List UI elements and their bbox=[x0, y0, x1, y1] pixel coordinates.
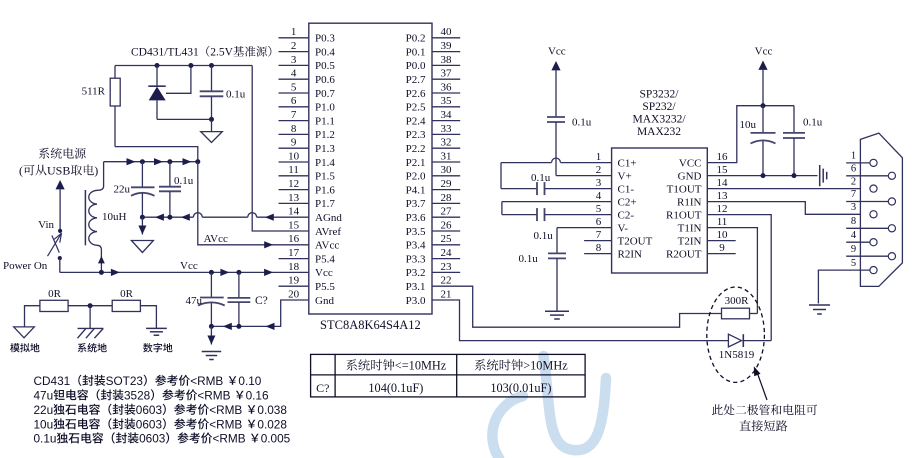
svg-text:32: 32 bbox=[441, 137, 452, 149]
svg-text:0.1u: 0.1u bbox=[34, 431, 57, 445]
svg-text:P0.3: P0.3 bbox=[315, 33, 335, 45]
svg-text:T1OUT: T1OUT bbox=[667, 183, 702, 195]
wire U2 pin2 V+ bbox=[556, 175, 612, 177]
svg-text:Vcc: Vcc bbox=[755, 46, 773, 58]
node dot GND-C8 bbox=[792, 173, 797, 178]
svg-text:P3.4: P3.4 bbox=[406, 240, 426, 252]
annotation pointer arrow bbox=[754, 366, 767, 400]
svg-text:R2OUT: R2OUT bbox=[666, 248, 702, 260]
svg-text:C1-: C1- bbox=[618, 183, 635, 195]
svg-text:Vin: Vin bbox=[38, 219, 54, 231]
svg-text:1: 1 bbox=[291, 26, 297, 38]
wire analog gnd bbox=[25, 306, 40, 327]
capacitor C6 0.1u V+ bbox=[547, 117, 565, 176]
svg-text:21: 21 bbox=[441, 288, 452, 300]
svg-text:17: 17 bbox=[288, 247, 300, 259]
wire U2 pin16 VCC bbox=[707, 106, 794, 163]
label note 直接短路 bbox=[740, 420, 788, 431]
svg-text:8: 8 bbox=[851, 216, 856, 227]
wire AVcc from rail bbox=[198, 162, 309, 245]
svg-text:12: 12 bbox=[288, 178, 299, 190]
notes price list text bbox=[34, 374, 291, 446]
svg-text:P3.6: P3.6 bbox=[406, 212, 426, 224]
svg-text:7: 7 bbox=[851, 189, 856, 200]
svg-text:9: 9 bbox=[291, 137, 297, 149]
svg-text:P4.1: P4.1 bbox=[406, 184, 426, 196]
node dot rail-C3 bbox=[167, 159, 172, 164]
svg-text:P1.0: P1.0 bbox=[315, 102, 335, 114]
svg-text:18: 18 bbox=[288, 261, 300, 273]
table header 系统时钟<=10MHz bbox=[346, 359, 447, 373]
wire switch to Vcc rail bbox=[59, 258, 61, 272]
label CD431/TL431 (2.5V reference) bbox=[131, 46, 271, 59]
svg-text:16: 16 bbox=[717, 151, 729, 163]
capacitor C3 0.1u bbox=[159, 162, 181, 218]
U1 right pin numbers 40-21 bbox=[441, 26, 453, 300]
capacitor C1 0.1u bbox=[200, 66, 224, 120]
svg-text:P1.5: P1.5 bbox=[315, 171, 335, 183]
svg-text:T2OUT: T2OUT bbox=[618, 235, 653, 247]
wire net T1IN to R4 bbox=[707, 228, 757, 314]
svg-text:0.1u: 0.1u bbox=[803, 116, 823, 128]
svg-text:0.16: 0.16 bbox=[246, 388, 269, 402]
svg-text:P1.2: P1.2 bbox=[315, 129, 335, 141]
svg-text:P5.5: P5.5 bbox=[315, 281, 335, 293]
node junction dot C1 bottom bbox=[209, 117, 214, 122]
U1 right pin stub wires 40-23 bbox=[432, 38, 460, 273]
svg-text:47u: 47u bbox=[186, 295, 203, 307]
wire net R1IN to DB9 pin3 bbox=[707, 202, 870, 215]
svg-text:0603: 0603 bbox=[136, 417, 163, 431]
svg-text:Vcc: Vcc bbox=[548, 46, 566, 58]
wire AVref from TL431 bbox=[252, 66, 309, 232]
svg-text:20: 20 bbox=[288, 288, 300, 300]
label 系统地 bbox=[78, 343, 107, 352]
svg-text:14: 14 bbox=[288, 206, 300, 218]
node junction dot ref bbox=[188, 63, 193, 68]
label 模拟地 bbox=[10, 343, 39, 352]
svg-text:25: 25 bbox=[441, 233, 453, 245]
svg-text:P0.1: P0.1 bbox=[406, 46, 426, 58]
svg-text:0.038: 0.038 bbox=[257, 403, 287, 417]
diode D2 1N5819 bbox=[728, 334, 771, 347]
ground GND4 analog 模拟地 bbox=[14, 327, 35, 338]
U1 pin name labels bbox=[315, 33, 426, 307]
ground GND3 under C4 bbox=[202, 326, 222, 359]
resistor R1 511R bbox=[110, 66, 120, 147]
svg-text:>10MHz: >10MHz bbox=[523, 359, 568, 373]
wire D1 ref connection bbox=[166, 66, 191, 94]
capacitor C4 47u bbox=[198, 272, 225, 326]
svg-text:3: 3 bbox=[291, 54, 297, 66]
svg-text:<=10MHz: <=10MHz bbox=[395, 359, 447, 373]
wire net TxD P3.1 bus bbox=[432, 286, 722, 327]
svg-text:22u: 22u bbox=[34, 403, 54, 417]
svg-text:0.1u: 0.1u bbox=[519, 253, 539, 265]
svg-text:14: 14 bbox=[717, 177, 729, 189]
node dot Vcc-10u bbox=[761, 103, 766, 108]
svg-text:P1.6: P1.6 bbox=[315, 184, 335, 196]
svg-text:P2.7: P2.7 bbox=[406, 74, 426, 86]
svg-text:AVref: AVref bbox=[315, 226, 341, 238]
ground GND7 under C11 bbox=[545, 310, 569, 312]
svg-text:0R: 0R bbox=[120, 288, 134, 300]
svg-text:P2.0: P2.0 bbox=[406, 171, 426, 183]
svg-text:P0.5: P0.5 bbox=[315, 60, 335, 72]
power Vcc arrow U2 left bbox=[548, 46, 566, 118]
svg-text:P2.2: P2.2 bbox=[406, 143, 426, 155]
node junction dot D1 cathode bbox=[155, 63, 160, 68]
svg-text:P2.1: P2.1 bbox=[406, 157, 426, 169]
resistor R2 0R bbox=[40, 300, 68, 311]
svg-text:P3.5: P3.5 bbox=[406, 226, 426, 238]
svg-text:P5.4: P5.4 bbox=[315, 253, 335, 265]
label 数字地 bbox=[143, 343, 172, 352]
ground GND8 DB9 shell bbox=[809, 304, 830, 306]
svg-text:<RMB: <RMB bbox=[197, 388, 230, 402]
svg-text:13: 13 bbox=[717, 190, 729, 202]
svg-text:4: 4 bbox=[291, 68, 297, 80]
arrow Gnd rail 2 bbox=[266, 323, 275, 330]
svg-text:0.005: 0.005 bbox=[261, 431, 291, 445]
svg-text:2.5V: 2.5V bbox=[210, 47, 233, 59]
svg-text:10u: 10u bbox=[740, 119, 757, 131]
IC U2 SP3232 body bbox=[612, 148, 708, 273]
wire U2 pin10 stub bbox=[707, 240, 735, 242]
table C? values grid bbox=[311, 354, 585, 397]
svg-text:2: 2 bbox=[851, 176, 856, 187]
IC U1 MCU STC8A8K64S4A12 body bbox=[309, 23, 432, 314]
svg-text:8: 8 bbox=[596, 242, 602, 254]
svg-text:<RMB: <RMB bbox=[209, 417, 242, 431]
svg-text:104(0.1uF): 104(0.1uF) bbox=[368, 381, 423, 395]
svg-text:4: 4 bbox=[851, 230, 857, 241]
arrow AGnd 2 bbox=[181, 214, 190, 221]
capacitor C11 0.1u V- bbox=[548, 228, 612, 312]
table header 系统时钟>10MHz bbox=[475, 359, 569, 373]
svg-text:P2.6: P2.6 bbox=[406, 88, 426, 100]
node Vref top rail wire bbox=[115, 65, 252, 67]
U2 pin name labels bbox=[618, 157, 702, 260]
svg-text:29: 29 bbox=[441, 178, 453, 190]
power Vcc arrow U2 right bbox=[755, 46, 773, 106]
ground GND2 analog bbox=[131, 217, 153, 252]
svg-text:1: 1 bbox=[851, 151, 856, 162]
svg-text:511R: 511R bbox=[82, 86, 106, 98]
wire Vcc rail bbox=[60, 271, 309, 273]
wire R4 to T1IN riser bbox=[750, 313, 758, 315]
svg-text:V+: V+ bbox=[618, 170, 632, 182]
wire U2 pin7 stub bbox=[584, 240, 612, 242]
J1 pin circles bbox=[870, 159, 896, 273]
arrow AGnd 1 bbox=[155, 214, 164, 221]
svg-text:Vcc: Vcc bbox=[180, 260, 198, 272]
svg-text:CD431/TL431: CD431/TL431 bbox=[131, 47, 199, 59]
svg-text:T1IN: T1IN bbox=[678, 222, 702, 234]
svg-text:VCC: VCC bbox=[679, 157, 702, 169]
power Vin input arrow bbox=[56, 180, 65, 231]
resistor R4 300R bbox=[722, 308, 750, 319]
svg-text:MAX3232/: MAX3232/ bbox=[632, 114, 686, 126]
svg-text:C?: C? bbox=[255, 295, 268, 307]
svg-text:10u: 10u bbox=[34, 417, 54, 431]
svg-text:P2.5: P2.5 bbox=[406, 102, 426, 114]
svg-text:3528: 3528 bbox=[124, 388, 151, 402]
capacitor C2 22u bbox=[131, 162, 155, 218]
svg-text:11: 11 bbox=[717, 216, 728, 228]
svg-text:MAX232: MAX232 bbox=[637, 126, 681, 138]
ground GND9 sideways bbox=[820, 165, 827, 186]
svg-text:38: 38 bbox=[441, 54, 453, 66]
svg-text:26: 26 bbox=[441, 219, 453, 231]
svg-text:<RMB: <RMB bbox=[213, 431, 246, 445]
svg-text:T2IN: T2IN bbox=[678, 235, 702, 247]
svg-text:P2.4: P2.4 bbox=[406, 115, 426, 127]
svg-text:1: 1 bbox=[596, 151, 602, 163]
svg-text:CD431: CD431 bbox=[34, 374, 71, 388]
svg-text:P3.0: P3.0 bbox=[406, 295, 426, 307]
node dot GND-10u bbox=[761, 173, 766, 178]
svg-text:7: 7 bbox=[596, 229, 602, 241]
wire R2-R3 bbox=[68, 305, 112, 307]
svg-text:0.1u: 0.1u bbox=[531, 172, 551, 184]
wire net RxD P3.0 bus bbox=[432, 300, 728, 341]
svg-text:0603: 0603 bbox=[139, 431, 166, 445]
svg-text:0.1u: 0.1u bbox=[534, 230, 554, 242]
svg-text:C?: C? bbox=[316, 381, 329, 395]
svg-text:): ) bbox=[94, 164, 98, 178]
svg-text:34: 34 bbox=[441, 109, 453, 121]
svg-text:P0.6: P0.6 bbox=[315, 74, 335, 86]
svg-text:22u: 22u bbox=[114, 184, 131, 196]
svg-text:USB: USB bbox=[47, 164, 70, 178]
svg-text:Power On: Power On bbox=[3, 260, 48, 272]
arrow Vcc rail 2 bbox=[220, 269, 229, 276]
svg-text:P0.4: P0.4 bbox=[315, 46, 335, 58]
svg-text:47u: 47u bbox=[34, 388, 54, 402]
svg-text:<RMB: <RMB bbox=[209, 403, 242, 417]
svg-text:27: 27 bbox=[441, 206, 453, 218]
capacitor C9 0.1u C1 bbox=[501, 163, 612, 196]
svg-text:Vcc: Vcc bbox=[315, 267, 333, 279]
svg-text:R1OUT: R1OUT bbox=[666, 209, 702, 221]
wire U2 pin15 GND bbox=[707, 175, 817, 177]
arrow Vcc rail 3 bbox=[264, 269, 273, 276]
arrow AGnd 3 bbox=[265, 214, 274, 221]
svg-text:4: 4 bbox=[596, 190, 602, 202]
svg-text:2: 2 bbox=[596, 164, 602, 176]
svg-text:13: 13 bbox=[288, 192, 300, 204]
wire AGnd rail bbox=[142, 213, 308, 218]
svg-text:P1.3: P1.3 bbox=[315, 143, 335, 155]
svg-text:15: 15 bbox=[717, 164, 729, 176]
node dot L1-rail bbox=[99, 270, 104, 275]
svg-text:0.1u: 0.1u bbox=[572, 116, 592, 128]
svg-text:7: 7 bbox=[291, 109, 297, 121]
svg-text:0R: 0R bbox=[48, 288, 62, 300]
U1 left pin numbers 1-20 bbox=[288, 26, 300, 300]
svg-text:0.028: 0.028 bbox=[257, 417, 287, 431]
wire D1 anode to C1 bbox=[157, 118, 212, 120]
capacitor C5 C? bbox=[228, 272, 251, 326]
svg-text:10: 10 bbox=[717, 229, 729, 241]
capacitor C7 10u bbox=[751, 106, 776, 176]
node dot C4 bottom bbox=[209, 324, 214, 329]
svg-text:SOT23: SOT23 bbox=[106, 374, 144, 388]
svg-text:0.10: 0.10 bbox=[238, 374, 261, 388]
wire U2 pin8 stub bbox=[584, 253, 612, 255]
node dot rail-C2 bbox=[140, 159, 145, 164]
capacitor C8 0.1u bbox=[783, 106, 805, 176]
svg-text:9: 9 bbox=[851, 244, 856, 255]
svg-text:GND: GND bbox=[678, 170, 702, 182]
node dot AGnd-C2 bbox=[140, 215, 145, 220]
svg-text:37: 37 bbox=[441, 68, 453, 80]
svg-text:39: 39 bbox=[441, 40, 453, 52]
svg-text:R1IN: R1IN bbox=[677, 196, 702, 208]
node junction dot C1 top bbox=[209, 63, 214, 68]
svg-text:AVcc: AVcc bbox=[204, 233, 228, 245]
svg-text:P0.7: P0.7 bbox=[315, 88, 335, 100]
svg-text:33: 33 bbox=[441, 123, 453, 135]
svg-text:3: 3 bbox=[596, 177, 602, 189]
svg-text:6: 6 bbox=[596, 216, 602, 228]
wire top rail bbox=[104, 161, 198, 163]
inductor L1 10uH bbox=[85, 162, 103, 273]
svg-text:P0.0: P0.0 bbox=[406, 60, 426, 72]
wire net R1OUT to D2 bbox=[707, 215, 771, 341]
J1 pin numbers bbox=[851, 151, 857, 269]
svg-text:12: 12 bbox=[717, 203, 728, 215]
svg-text:1N5819: 1N5819 bbox=[719, 349, 755, 361]
U2 pin numbers bbox=[596, 151, 728, 254]
svg-text:10: 10 bbox=[288, 150, 300, 162]
arrow top rail 1 bbox=[127, 158, 136, 165]
svg-text:R2IN: R2IN bbox=[618, 248, 643, 260]
annotation ellipse around R4 D2 bbox=[707, 287, 765, 382]
wire 511R bottom feed bbox=[115, 147, 198, 162]
wire Gnd return rail bbox=[211, 300, 308, 326]
wire R3 to digital gnd bbox=[140, 306, 156, 329]
ground GND6 earth 数字地 bbox=[146, 327, 167, 329]
svg-text:300R: 300R bbox=[725, 295, 750, 307]
svg-text:16: 16 bbox=[288, 233, 300, 245]
svg-text:28: 28 bbox=[441, 192, 453, 204]
ground GND5 chassis 系统地 bbox=[78, 306, 104, 339]
svg-text:V-: V- bbox=[618, 222, 629, 234]
svg-text:P3.2: P3.2 bbox=[406, 267, 426, 279]
wire U2 pin1 C1+ with hop bbox=[501, 158, 612, 163]
svg-text:23: 23 bbox=[441, 261, 453, 273]
svg-text:P1.4: P1.4 bbox=[315, 157, 335, 169]
arrow into L1 bbox=[98, 256, 105, 264]
arrow Gnd rail 1 bbox=[223, 323, 232, 330]
U1 left pin stub wires 1-13,17,19 bbox=[279, 38, 309, 286]
node dot C5 top bbox=[236, 270, 241, 275]
svg-text:11: 11 bbox=[288, 164, 299, 176]
diode D1 TL431 bbox=[148, 66, 165, 120]
svg-text:0603: 0603 bbox=[136, 403, 163, 417]
svg-text:Gnd: Gnd bbox=[315, 295, 334, 307]
svg-text:10uH: 10uH bbox=[102, 211, 127, 223]
svg-text:6: 6 bbox=[851, 164, 856, 175]
node dot C5 bottom bbox=[236, 324, 241, 329]
svg-text:P1.1: P1.1 bbox=[315, 115, 335, 127]
arrow top rail 3 bbox=[183, 158, 192, 165]
svg-text:9: 9 bbox=[719, 242, 725, 254]
svg-text:24: 24 bbox=[441, 247, 453, 259]
svg-text:AVcc: AVcc bbox=[315, 240, 339, 252]
wire net T1OUT to DB9 pin2 bbox=[707, 188, 870, 190]
svg-text:C1+: C1+ bbox=[618, 157, 637, 169]
svg-text:P2.3: P2.3 bbox=[406, 129, 426, 141]
svg-text:5: 5 bbox=[596, 203, 602, 215]
svg-text:C2+: C2+ bbox=[618, 196, 637, 208]
svg-text:P0.2: P0.2 bbox=[406, 33, 426, 45]
svg-text:SP232/: SP232/ bbox=[642, 101, 676, 113]
svg-text:AGnd: AGnd bbox=[315, 212, 342, 224]
node dot system gnd bbox=[88, 303, 93, 308]
node dot rail-AVcc corner bbox=[195, 159, 200, 164]
svg-text:8: 8 bbox=[291, 123, 297, 135]
wire J1 pin5 to ground bbox=[818, 270, 870, 303]
arrow top rail 2 bbox=[154, 158, 163, 165]
svg-text:0.1u: 0.1u bbox=[226, 89, 246, 101]
label (USB power) 可从USB取电 bbox=[19, 164, 98, 178]
arrow Vcc rail 1 bbox=[111, 269, 120, 276]
svg-text:(: ( bbox=[19, 164, 23, 178]
ground GND1 TL431 bbox=[201, 119, 223, 142]
svg-text:31: 31 bbox=[441, 150, 452, 162]
svg-text:SP3232/: SP3232/ bbox=[640, 89, 680, 101]
svg-text:P1.7: P1.7 bbox=[315, 198, 335, 210]
svg-text:40: 40 bbox=[441, 26, 453, 38]
svg-text:C2-: C2- bbox=[618, 209, 635, 221]
svg-text:STC8A8K64S4A12: STC8A8K64S4A12 bbox=[320, 318, 421, 332]
node dot AGnd-C3 bbox=[167, 215, 172, 220]
svg-text:P3.1: P3.1 bbox=[406, 281, 426, 293]
svg-text:6: 6 bbox=[291, 95, 297, 107]
svg-text:35: 35 bbox=[441, 95, 453, 107]
svg-text:0.1u: 0.1u bbox=[174, 175, 194, 187]
node dot C4 top bbox=[209, 270, 214, 275]
svg-text:3: 3 bbox=[851, 202, 856, 213]
svg-text:22: 22 bbox=[441, 275, 452, 287]
svg-text:5: 5 bbox=[851, 258, 856, 269]
connector J1 DB9 shell bbox=[860, 133, 902, 286]
label U2 part SP3232/SP232/MAX3232/MAX232 bbox=[632, 89, 686, 139]
label system power 系统电源 bbox=[39, 148, 86, 159]
label note 此处二极管和电阻可 bbox=[712, 404, 817, 415]
svg-text:30: 30 bbox=[441, 164, 453, 176]
svg-text:P3.3: P3.3 bbox=[406, 253, 426, 265]
svg-text:5: 5 bbox=[291, 81, 297, 93]
svg-text:15: 15 bbox=[288, 219, 300, 231]
svg-text:P3.7: P3.7 bbox=[406, 198, 426, 210]
svg-text:<RMB: <RMB bbox=[190, 374, 223, 388]
wire U2 pin9 stub bbox=[707, 253, 735, 255]
arrow into AVcc pin bbox=[264, 241, 273, 248]
svg-text:2: 2 bbox=[291, 40, 297, 52]
svg-text:19: 19 bbox=[288, 275, 300, 287]
svg-text:103(0.01uF): 103(0.01uF) bbox=[490, 381, 551, 395]
J1 pin stub wires bbox=[846, 163, 888, 256]
svg-text:36: 36 bbox=[441, 81, 453, 93]
switch S1 Power On bbox=[48, 229, 63, 260]
resistor R3 0R bbox=[112, 300, 140, 311]
capacitor C10 0.1u C2 bbox=[502, 202, 612, 222]
